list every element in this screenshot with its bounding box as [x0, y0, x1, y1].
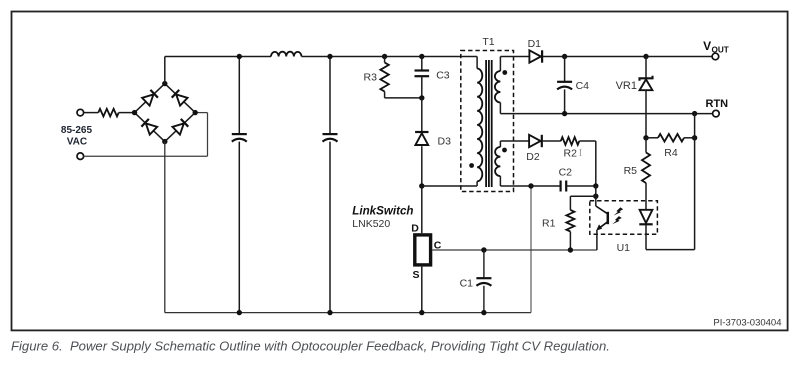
resistor R4 — [643, 135, 648, 140]
primary polarity dot — [469, 163, 474, 168]
primary winding — [476, 57, 478, 69]
bias winding — [499, 141, 501, 147]
terminal VOUT — [712, 53, 719, 60]
wire emitter down — [596, 230, 598, 250]
wire fuse to bridge left node — [119, 112, 135, 114]
diode D2 — [529, 135, 541, 147]
transformer core — [485, 60, 487, 187]
diode D1 — [529, 50, 541, 62]
light arrow 2 — [612, 216, 622, 224]
svg-text:RTN: RTN — [706, 98, 729, 110]
bridge arm wire left-top — [135, 84, 165, 113]
LED of optocoupler — [645, 201, 647, 210]
node bridge top — [162, 81, 167, 86]
transformer T1 dashed box — [461, 51, 514, 192]
svg-text:OUT: OUT — [712, 45, 729, 54]
capacitor C4 — [562, 54, 567, 59]
svg-text:C4: C4 — [576, 80, 590, 92]
wire secondary to D1 — [500, 56, 529, 58]
node bridge left — [132, 110, 137, 115]
bridge diode bottom-to-right — [172, 123, 183, 134]
svg-text:R4: R4 — [664, 147, 678, 159]
svg-text:Figure 6. Power Supply Schema: Figure 6. Power Supply Schematic Outline… — [11, 338, 610, 353]
node feedback upper — [593, 183, 598, 188]
capacitor C input 2 — [329, 57, 331, 135]
top rail left segment — [165, 56, 271, 58]
svg-text:85-265: 85-265 — [61, 125, 93, 136]
svg-text:D: D — [411, 222, 419, 234]
svg-text:R3: R3 — [364, 72, 378, 84]
resistor R3 — [382, 54, 387, 59]
wire bias return riser x=531 — [530, 186, 532, 313]
wire bridge bottom to bottom rail — [164, 142, 166, 313]
wire R2 to feedback node — [579, 140, 596, 142]
bridge diode left-to-top — [142, 94, 153, 105]
top rail right segment — [302, 56, 478, 58]
node drain junction — [419, 183, 424, 188]
wire D2 to R2 — [542, 140, 561, 142]
node bridge bottom — [162, 139, 167, 144]
svg-text:R1: R1 — [542, 218, 556, 230]
fusible resistor RF1 — [98, 109, 118, 117]
optocoupler U1 dashed box — [590, 201, 658, 235]
wire C2 to feedback node — [566, 185, 596, 187]
node bridge right — [193, 110, 198, 115]
svg-text:VR1: VR1 — [616, 80, 637, 92]
wire AC bottom terminal run — [84, 155, 208, 157]
wire stub up to bridge right — [207, 113, 209, 157]
svg-text:VAC: VAC — [67, 137, 87, 148]
diode D3 — [421, 98, 423, 132]
wire drain to primary — [422, 185, 477, 187]
wire LED return — [646, 249, 695, 251]
svg-text:R5: R5 — [624, 165, 638, 177]
svg-text:C1: C1 — [460, 277, 474, 289]
node R1 bottom — [568, 247, 573, 252]
AC input terminal bottom — [77, 153, 84, 160]
light arrow 1 — [614, 207, 624, 215]
resistor R5 — [645, 138, 647, 153]
wire bias to D2 — [500, 140, 529, 142]
svg-text:V: V — [703, 39, 711, 53]
bridge arm wire left-bottom — [135, 113, 165, 142]
svg-text:C3: C3 — [436, 70, 450, 82]
secondary polarity dot — [502, 70, 507, 75]
wire D pin — [421, 186, 423, 233]
bridge diode right-to-top — [176, 94, 187, 105]
svg-text:D1: D1 — [528, 38, 542, 50]
bottom rail — [165, 312, 531, 314]
node bias return — [528, 183, 533, 188]
terminal RTN — [713, 110, 720, 117]
inductor L1 — [271, 52, 302, 57]
phototransistor emitter — [598, 222, 608, 230]
node feedback lower — [593, 194, 598, 199]
wire right column lower — [694, 138, 696, 250]
phototransistor bar — [607, 212, 610, 224]
wire bridge top to top rail — [164, 57, 166, 84]
bridge arm wire bottom-right — [165, 113, 195, 142]
capacitor C3 — [419, 54, 424, 59]
wire bias bottom to riser — [500, 185, 531, 187]
resistor R1 — [569, 196, 571, 210]
wire C pin row — [432, 249, 597, 251]
svg-text:D2: D2 — [526, 151, 540, 163]
bridge arm wire top-right — [165, 84, 195, 113]
bias polarity dot — [502, 148, 507, 153]
svg-text:LNK520: LNK520 — [352, 218, 390, 230]
wire bias return to C2 — [531, 185, 561, 187]
wire S pin to bottom rail — [421, 267, 423, 313]
svg-text:PI-3703-030404: PI-3703-030404 — [713, 318, 781, 329]
secondary winding — [499, 57, 501, 72]
zener diode VR1 — [643, 54, 648, 59]
svg-text:C2: C2 — [559, 167, 573, 179]
svg-text:I: I — [579, 148, 582, 159]
wire to R1 top — [570, 195, 595, 197]
capacitor C2 — [559, 181, 561, 192]
bridge diode bottom-to-left — [146, 123, 157, 134]
svg-text:R2: R2 — [564, 148, 578, 160]
rtn rail — [500, 113, 712, 115]
resistor R2 — [561, 137, 580, 145]
vout rail — [542, 56, 712, 58]
svg-text:D3: D3 — [438, 135, 452, 147]
node R3 C3 junction — [419, 95, 424, 100]
svg-text:U1: U1 — [617, 242, 631, 254]
wire right column upper — [694, 114, 696, 138]
LinkSwitch U LNK520 body — [415, 235, 431, 265]
wire AC top terminal to fuse — [84, 112, 99, 114]
capacitor C input 1 — [238, 57, 240, 135]
AC input terminal top — [77, 109, 84, 116]
svg-text:LinkSwitch: LinkSwitch — [352, 205, 413, 218]
svg-text:S: S — [412, 269, 419, 281]
phototransistor collector wire — [595, 196, 597, 206]
svg-text:T1: T1 — [482, 36, 494, 48]
capacitor C1 — [481, 247, 486, 252]
node rtn junction — [692, 111, 697, 116]
